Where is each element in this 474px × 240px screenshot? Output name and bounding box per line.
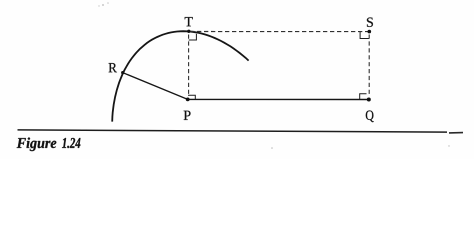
label R [109, 63, 117, 72]
label S [367, 18, 373, 27]
horizontal rule above caption [18, 130, 448, 132]
point Q [367, 98, 371, 102]
right angle mark at S [360, 32, 369, 39]
right angle mark at P [188, 95, 195, 99]
caption Figure 1.24 [17, 138, 81, 152]
scan speck cluster top left [98, 2, 108, 7]
point T [187, 30, 190, 33]
label Q [366, 111, 374, 123]
point R [121, 71, 124, 74]
point S [368, 30, 372, 34]
circular arc through R and T [112, 31, 248, 121]
label P [184, 111, 191, 120]
dashed line S to Q [368, 35, 370, 97]
right angle mark at T [189, 34, 197, 40]
dashed line T to S [190, 31, 369, 33]
scan specks bottom [271, 145, 449, 149]
label T [185, 17, 193, 26]
dashed line T to P [188, 35, 190, 96]
horizontal rule right segment [449, 132, 463, 134]
point P [186, 98, 190, 102]
right angle mark at Q [360, 94, 367, 99]
line R to P [123, 73, 188, 100]
line P to Q [188, 98, 369, 100]
